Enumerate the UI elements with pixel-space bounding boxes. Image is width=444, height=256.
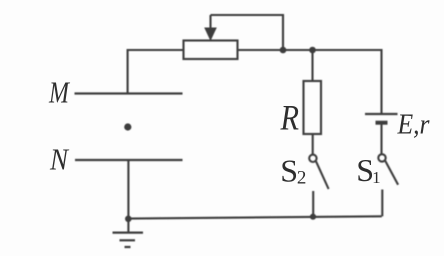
battery E,r (365, 114, 398, 123)
rheostat (sliding resistor) (184, 41, 238, 60)
svg-text:S2: S2 (280, 153, 306, 189)
ground (113, 233, 144, 247)
node junction dot C (ground node) (125, 216, 132, 223)
wire right of rheostat across top (238, 49, 382, 51)
svg-text:S1: S1 (356, 152, 380, 188)
wire switch S2 to bottom rail (312, 191, 314, 217)
wire switch S1 to bottom rail (381, 190, 383, 217)
node junction dot B (309, 47, 316, 54)
node junction dot A (280, 47, 287, 54)
switch S1 (378, 154, 398, 185)
svg-text:M: M (48, 76, 70, 110)
capacitor plate N (75, 159, 183, 161)
charged particle (124, 123, 131, 130)
wire battery to switch S1 (380, 125, 382, 155)
svg-text:R: R (280, 98, 299, 138)
wire resistor R to switch S2 (312, 134, 314, 155)
rheostat wiper arrow (204, 15, 217, 41)
wire wiper bypass (top) (211, 15, 284, 50)
resistor R (304, 81, 322, 134)
switch S2 (309, 155, 328, 189)
wire node B right and down to battery (313, 50, 382, 114)
wire node B down to resistor R (311, 50, 313, 81)
wire bottom rail (128, 216, 381, 218)
svg-text:E,r: E,r (397, 110, 430, 141)
node junction dot D (310, 214, 316, 220)
wire left of rheostat to plate M (128, 50, 184, 94)
capacitor plate M (75, 92, 183, 94)
svg-text:N: N (49, 142, 70, 177)
wire plate N down to ground junction (127, 160, 129, 233)
